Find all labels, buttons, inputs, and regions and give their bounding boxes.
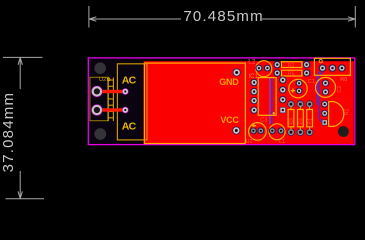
svg-text:U1: U1 xyxy=(246,139,253,145)
U3 fab mark xyxy=(319,60,322,63)
U3 pad 2 xyxy=(329,64,337,72)
capacitor C2 xyxy=(316,77,344,97)
IC1 pad 2 xyxy=(250,88,257,95)
connector U2 left body rect xyxy=(90,77,109,120)
IC1 pad 4 xyxy=(250,106,257,113)
svg-text:L1: L1 xyxy=(279,139,285,145)
connector U2 body rect xyxy=(117,64,147,140)
trace F.Cu blue pair right xyxy=(317,68,324,122)
U2 ladder core xyxy=(108,78,113,122)
dimension left 37.084mm xyxy=(3,57,44,198)
IC1 pad 7 xyxy=(279,96,286,103)
inductor L2 xyxy=(255,61,271,77)
svg-text:R2: R2 xyxy=(288,63,295,69)
svg-text:C1: C1 xyxy=(308,79,315,85)
svg-text:R5: R5 xyxy=(288,71,295,77)
resistor R2 xyxy=(273,61,310,69)
transformer module T1 outline xyxy=(144,63,245,143)
transistor Q1 TO-92 xyxy=(321,101,351,127)
svg-text:R2: R2 xyxy=(345,108,351,115)
regulator U3 body xyxy=(314,58,350,75)
via VCC xyxy=(232,127,240,135)
U2 pad 2 xyxy=(91,104,102,115)
svg-text:AC: AC xyxy=(122,75,137,87)
U2 pad 3 xyxy=(122,88,129,95)
svg-text:R8: R8 xyxy=(340,77,347,83)
IC1 fab dot xyxy=(273,112,275,114)
svg-text:C2: C2 xyxy=(337,86,343,93)
IC1 pad 6 xyxy=(279,86,286,93)
mounting hole top-left xyxy=(94,62,106,74)
U3 pad 3 xyxy=(338,64,346,72)
copper zone pour xyxy=(144,61,354,144)
U2 pad 4 xyxy=(122,107,129,114)
mounting hole bottom-right xyxy=(338,126,349,137)
svg-text:R3: R3 xyxy=(289,118,295,125)
resistor R5 xyxy=(273,69,310,77)
svg-text:C3: C3 xyxy=(260,117,267,123)
U3 pad 1 xyxy=(319,64,327,72)
resistor R3 vertical xyxy=(287,100,295,135)
op-amp IC1 body xyxy=(258,78,276,116)
resistor R1 vertical xyxy=(306,100,314,135)
IC1 pad 5 xyxy=(279,76,286,83)
svg-text:R1: R1 xyxy=(308,118,314,125)
svg-text:37.084mm: 37.084mm xyxy=(0,92,17,172)
resistor bank pin ticks xyxy=(291,107,310,130)
svg-text:70.485mm: 70.485mm xyxy=(183,8,263,25)
U2 pin1 square xyxy=(107,78,109,80)
IC1 pad 3 xyxy=(250,97,257,104)
svg-text:VCC: VCC xyxy=(220,115,239,125)
svg-text:AC: AC xyxy=(122,120,137,132)
svg-text:U2: U2 xyxy=(99,77,106,83)
board outline xyxy=(88,58,355,145)
wire AC1 trace xyxy=(97,90,125,93)
resistor R4 vertical xyxy=(297,100,305,135)
IC1 pad 1 xyxy=(250,79,257,86)
trace F.Cu blue through IC1 xyxy=(271,78,273,124)
inductor L1 xyxy=(269,124,285,140)
dimension top 70.485mm xyxy=(89,6,355,28)
svg-text:R4: R4 xyxy=(299,118,305,125)
IC1 pad 8 square xyxy=(280,107,286,113)
svg-text:L2: L2 xyxy=(248,58,256,65)
U2 pad 1 xyxy=(91,86,102,97)
mounting hole bottom-left xyxy=(94,128,106,140)
capacitor U1 electrolytic xyxy=(249,123,267,141)
svg-text:GND: GND xyxy=(219,77,239,87)
trace B.Cu purple through IC1 xyxy=(269,78,271,124)
wire AC2 trace xyxy=(97,108,125,111)
capacitor C1 xyxy=(289,79,307,97)
via GND xyxy=(233,69,241,77)
